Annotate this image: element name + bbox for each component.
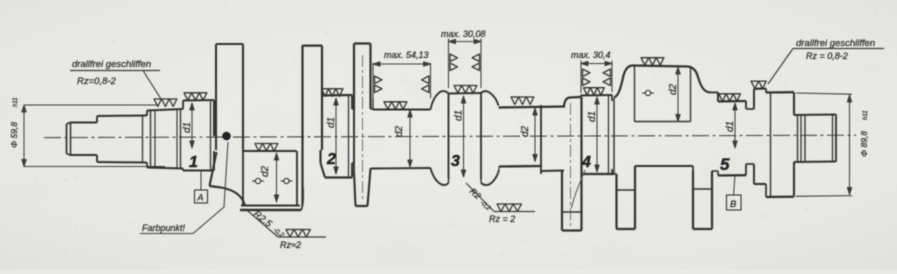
svg-text:Rz = 2: Rz = 2 — [489, 214, 515, 224]
svg-text:d1: d1 — [587, 111, 598, 122]
svg-text:drallfrei geschliffen: drallfrei geschliffen — [72, 59, 151, 70]
svg-text:Rz≈2: Rz≈2 — [280, 240, 301, 250]
svg-text:d2: d2 — [668, 83, 679, 95]
svg-text:Rz = 0,8-2: Rz = 0,8-2 — [806, 51, 848, 61]
svg-text:Rz=0,8-2: Rz=0,8-2 — [77, 76, 117, 87]
svg-text:Φ 89,8: Φ 89,8 — [859, 131, 869, 157]
svg-text:d2: d2 — [260, 165, 271, 177]
svg-text:3: 3 — [451, 153, 460, 170]
svg-text:max. 30,4: max. 30,4 — [571, 50, 611, 60]
svg-text:d1: d1 — [454, 110, 465, 121]
svg-text:max. 54,13: max. 54,13 — [384, 50, 429, 60]
svg-text:Φ 59,8: Φ 59,8 — [9, 122, 19, 148]
svg-text:4: 4 — [581, 154, 591, 171]
svg-text:d2: d2 — [394, 125, 405, 137]
svg-text:A: A — [197, 193, 204, 203]
svg-text:drallfrei geschliffen: drallfrei geschliffen — [796, 38, 875, 49]
svg-text:B: B — [730, 199, 737, 210]
svg-text:1: 1 — [189, 154, 198, 171]
svg-text:d2: d2 — [520, 125, 531, 137]
svg-text:Farbpunkt!: Farbpunkt! — [142, 223, 186, 233]
svg-text:d1: d1 — [725, 121, 736, 132]
svg-text:h11: h11 — [863, 110, 869, 120]
svg-text:d1: d1 — [182, 122, 193, 133]
